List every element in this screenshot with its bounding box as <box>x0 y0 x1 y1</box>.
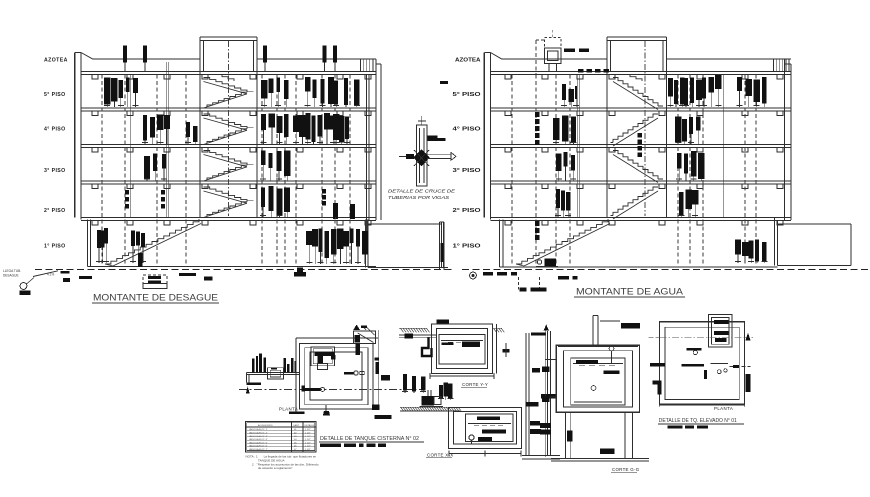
corte G-G top pipe <box>592 316 594 347</box>
pipe drop left of right building <box>439 222 441 270</box>
svg-text:CANT.: CANT. <box>293 424 300 427</box>
tank planta top arrow <box>353 325 359 330</box>
corte Y-Y top cap <box>437 320 450 325</box>
tank planta float valve <box>344 372 354 375</box>
left building ground dash line <box>35 269 455 271</box>
cistern fixture bars right group <box>284 358 287 373</box>
right building floor slabs <box>491 71 792 73</box>
svg-text:MONTANTE DE DESAGUE: MONTANTE DE DESAGUE <box>93 293 218 304</box>
legend table accesorios <box>246 422 317 453</box>
corte X-X interior <box>477 417 500 421</box>
left building: floor labels <box>44 58 68 250</box>
right building fixture clusters 3rd floor <box>556 154 562 172</box>
corte Y-Y bottom dim <box>430 375 494 377</box>
svg-text:MONTANTE DE AGUA: MONTANTE DE AGUA <box>576 287 684 298</box>
cistern centerline <box>239 389 425 391</box>
corte G-G tank walls <box>556 345 639 412</box>
left building right annex 1st floor <box>364 220 366 268</box>
right building right parapet hatch <box>773 60 775 72</box>
pump unit <box>422 396 435 406</box>
detail cruce: top ticks <box>418 120 426 122</box>
tank planta right black bars <box>375 357 379 360</box>
planta elevado bottom dim <box>660 403 745 405</box>
planta elevado top inlet box <box>709 315 733 348</box>
right building stairs zigzag flights <box>613 78 658 107</box>
left building right parapet hatch <box>360 60 362 72</box>
cistern tank wall entry black <box>302 386 305 392</box>
left building roof edge line <box>93 58 200 60</box>
right stair tower roof <box>607 36 667 38</box>
svg-text:4° PISO: 4° PISO <box>44 127 66 133</box>
corte Y-Y right hatch and dim <box>494 328 497 332</box>
footing mark under left building <box>294 272 306 277</box>
right building lower right step wall <box>774 218 776 266</box>
svg-text:DESAGUE: DESAGUE <box>3 274 19 278</box>
svg-text:CORTE G-G: CORTE G-G <box>612 467 640 472</box>
left building column stubs below slabs <box>92 75 98 80</box>
left pipe detail of corte G-G <box>544 330 546 457</box>
planta elevado corner bars <box>653 381 662 395</box>
left building right wall <box>375 59 377 220</box>
left building fixture clusters 4th floor <box>143 115 147 141</box>
right building fixture clusters 1st floor <box>735 239 741 254</box>
right building riser dash bars 1st floor <box>535 221 540 226</box>
corte G-G pipes to left column <box>546 359 557 361</box>
detail cruce: beam bar above <box>428 136 438 142</box>
corte Y-Y trap <box>422 337 432 356</box>
svg-text:1 1/2": 1 1/2" <box>305 429 311 431</box>
svg-text:1 1/2": 1 1/2" <box>305 446 311 448</box>
svg-text:VALVULA FLOT. 5": VALVULA FLOT. 5" <box>249 441 268 444</box>
planta elevado left bar <box>650 363 665 367</box>
right building roof edge <box>502 58 607 60</box>
sewer connection left <box>33 271 58 277</box>
tank planta bottom drop arrow <box>325 405 327 411</box>
planta tank bottom right mark <box>372 405 380 411</box>
cistern feed piping <box>247 371 300 373</box>
right building ground floor line <box>500 266 778 268</box>
tank planta overflow box top-right <box>353 331 375 344</box>
black bar right of planta bottom <box>375 415 392 419</box>
left building fixture clusters 5th floor <box>104 78 110 105</box>
left stair tower roof <box>200 36 257 38</box>
corte G-G floats <box>609 346 614 351</box>
svg-text:DETALLE DE TANQUE CISTERNA N°: DETALLE DE TANQUE CISTERNA N° 02 <box>320 436 419 442</box>
svg-text:5° PISO: 5° PISO <box>44 92 66 98</box>
svg-text:5° PISO: 5° PISO <box>453 92 481 98</box>
svg-text:CORTE X-X: CORTE X-X <box>427 453 454 458</box>
tank cisterna planta outer walls <box>300 344 374 410</box>
right building rooftop tank box <box>545 48 562 64</box>
svg-text:2° PISO: 2° PISO <box>44 208 66 214</box>
corte G-G top wall hatch <box>558 346 638 348</box>
right building riser dashed pipes <box>511 75 513 265</box>
corte Y-Y water line <box>441 340 483 342</box>
right building right annex <box>778 223 852 225</box>
svg-text:3° PISO: 3° PISO <box>453 168 481 174</box>
left building riser dashed pipes <box>101 75 103 265</box>
right tower top roof steps <box>624 75 642 82</box>
right tower riser black dashes <box>638 133 643 138</box>
right building ground dash line <box>462 269 870 271</box>
svg-text:DETALLE DE CRUCE DE: DETALLE DE CRUCE DE <box>388 189 456 194</box>
corte Y-Y interior bars <box>462 342 480 348</box>
left building foundation marks <box>79 276 92 279</box>
right building fixture clusters 5th floor <box>562 84 566 100</box>
right building floor labels <box>453 58 481 250</box>
right building parapet left wall <box>483 53 485 218</box>
middle riser pipe column <box>525 333 527 455</box>
svg-text:1° PISO: 1° PISO <box>453 244 481 250</box>
svg-text:3° PISO: 3° PISO <box>44 168 66 174</box>
right tower center line <box>644 41 646 216</box>
right building first floor stair diagonal <box>516 219 608 264</box>
cistern fixture bars left group <box>252 359 254 373</box>
left building ground floor line <box>88 266 377 268</box>
svg-text:DETALLE: DETALLE <box>305 424 315 427</box>
svg-text:VALVULA FLOT. 4": VALVULA FLOT. 4" <box>249 438 268 441</box>
svg-text:de acuerdo a reglamento": de acuerdo a reglamento" <box>258 466 292 470</box>
ground hatch band at corte X-X <box>400 406 460 408</box>
right building parapet cap slope <box>491 53 503 60</box>
tank planta inlet box top-left <box>311 347 334 366</box>
svg-text:CORTE Y-Y: CORTE Y-Y <box>462 382 488 387</box>
corte G-G legs and base <box>564 412 566 458</box>
detail cruce: center valve diamond <box>414 149 430 167</box>
svg-text:AZOTEA: AZOTEA <box>44 58 68 64</box>
svg-text:VALVULA FLOT. 1": VALVULA FLOT. 1" <box>249 428 268 431</box>
right building column stubs <box>505 75 511 80</box>
svg-text:VALVULA FLOT. 2": VALVULA FLOT. 2" <box>249 432 268 435</box>
left building fixture clusters 1st floor <box>97 230 101 248</box>
svg-text:PLANTA: PLANTA <box>714 406 733 411</box>
right sewer circle <box>470 272 477 279</box>
tank planta bottom suction bar <box>302 388 321 391</box>
cistern feed left black bar <box>247 382 262 385</box>
legend notes <box>246 455 319 471</box>
corte G-G ground lines <box>551 458 649 460</box>
right building riser dash bars 4th floor <box>535 112 540 117</box>
svg-text:VALVULA FLOT. 3": VALVULA FLOT. 3" <box>249 435 268 438</box>
svg-text:TUBERIAS POR VIGAS: TUBERIAS POR VIGAS <box>388 195 450 200</box>
svg-text:1 1/2": 1 1/2" <box>305 436 311 438</box>
right building interior walls <box>576 75 578 218</box>
svg-text:VALVULA FLOT. 6": VALVULA FLOT. 6" <box>249 445 268 448</box>
svg-text:VALVULA FLOT. 7": VALVULA FLOT. 7" <box>249 448 268 451</box>
svg-text:ACCESORIOS: ACCESORIOS <box>258 424 273 427</box>
svg-text:1 1/2": 1 1/2" <box>305 433 311 435</box>
left building vent stacks above roof <box>123 46 127 63</box>
detail cruce: left pipe stub <box>399 156 414 158</box>
right building fixture clusters 4th floor <box>553 118 559 140</box>
right stair tower walls <box>606 37 608 218</box>
left building parapet left wall <box>74 53 76 218</box>
svg-text:PLANTA: PLANTA <box>279 407 298 412</box>
tank planta dimension frame <box>378 330 380 410</box>
left building parapet cap slope <box>81 53 93 60</box>
cistern feed up arrow <box>246 386 250 393</box>
detail cruce: horizontal pipe with arrow <box>427 153 451 155</box>
svg-text:4° PISO: 4° PISO <box>453 127 481 133</box>
svg-text:AZOTEA: AZOTEA <box>455 58 481 64</box>
right building pump at ground <box>537 260 541 264</box>
right below-ground dashed pit <box>518 277 520 290</box>
svg-text:DETALLE DE TQ. ELEVADO N° 01: DETALLE DE TQ. ELEVADO N° 01 <box>659 418 737 424</box>
right building right wall <box>784 59 786 220</box>
planta elevado centerline <box>649 337 660 339</box>
detail cruce de tuberias: vertical pipe <box>417 125 428 186</box>
svg-text:1 1/2": 1 1/2" <box>305 439 311 441</box>
fixtures below corte Y-Y <box>403 374 407 391</box>
corte Y-Y left plumbing <box>399 334 437 336</box>
corte G-G water line <box>573 362 623 364</box>
right building fixture clusters 2nd floor <box>556 189 560 208</box>
svg-text:1 1/2": 1 1/2" <box>305 449 311 451</box>
left tower center line <box>228 41 230 216</box>
corte G-G interior bars <box>576 360 598 364</box>
left building 1st floor left wall <box>87 220 89 267</box>
left building first floor stair diagonal <box>105 219 199 264</box>
left building floor slabs <box>81 71 376 73</box>
right building 1st floor left wall <box>499 220 501 268</box>
left tower top roof steps <box>216 75 234 82</box>
svg-text:4.1%: 4.1% <box>47 273 54 277</box>
svg-text:1° PISO: 1° PISO <box>44 244 66 250</box>
left stair tower walls <box>199 37 201 218</box>
corte X-X bottom dim <box>449 453 521 455</box>
detail cruce leader mark <box>440 81 448 84</box>
scale bar cisterna <box>320 444 341 447</box>
corte X-X walls <box>449 408 522 449</box>
left building interior walls <box>165 62 167 218</box>
planta tanque elevado outer <box>660 322 745 405</box>
right building roof black dashes <box>564 49 575 53</box>
corte Y-Y tank walls <box>432 324 493 374</box>
svg-text:2° PISO: 2° PISO <box>453 208 481 214</box>
cistern water meter box <box>268 368 284 379</box>
left building fixture clusters 3rd floor <box>144 156 150 179</box>
svg-text:1 1/2": 1 1/2" <box>305 442 311 444</box>
svg-text:LLEGA TUB.: LLEGA TUB. <box>3 269 21 273</box>
left building stairs chevrons <box>204 78 248 93</box>
left building fixture clusters 2nd floor <box>261 188 265 208</box>
planta elevado interior <box>687 348 702 351</box>
